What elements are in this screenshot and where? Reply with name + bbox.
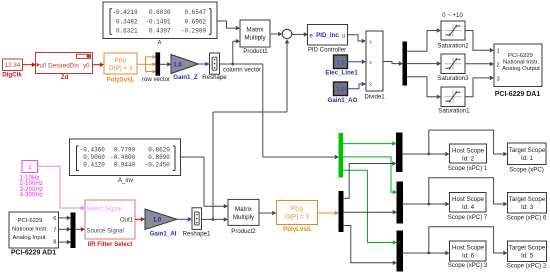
block Reshape1	[183, 208, 211, 238]
svg-text:Analog Input: Analog Input	[12, 235, 45, 241]
svg-text:Target Scope: Target Scope	[509, 147, 546, 154]
wire DigClk to Zd	[23, 62, 37, 67]
wire Reshape output (column vector) with branch up to Product1 and down to green demux	[220, 39, 340, 159]
svg-text:Scope (xPC): Scope (xPC)	[509, 167, 544, 174]
block Reshape	[202, 53, 227, 81]
block Saturation2	[437, 21, 469, 50]
svg-text:Host Scope: Host Scope	[452, 148, 485, 155]
svg-text:O(P) = 3: O(P) = 3	[109, 65, 133, 72]
scope mux 3 (black bar)	[397, 231, 403, 271]
block Target Scope Id 1	[508, 143, 547, 174]
svg-text:Gain1_AI: Gain1_AI	[150, 230, 177, 237]
wire Product1 to sum	[270, 32, 282, 37]
block PolySvsL polynomial P(u)	[104, 53, 137, 83]
svg-text:Multiply: Multiply	[233, 214, 255, 221]
svg-text:Host Scope: Host Scope	[452, 196, 485, 203]
svg-text:PID Controller: PID Controller	[308, 46, 346, 53]
svg-text:0.6962: 0.6962	[184, 18, 206, 25]
wire PolyLvsS to lower demux (orange)	[318, 211, 340, 216]
svg-text:IIR Filter Select: IIR Filter Select	[88, 241, 133, 248]
block Host Scope Id 4	[448, 193, 488, 221]
svg-text:x: x	[369, 39, 372, 45]
svg-text:0.6547: 0.6547	[184, 9, 206, 16]
wire Saturation3 to DA1 port 2	[465, 62, 494, 67]
wire green demux out1 to scope mux 1	[343, 141, 397, 146]
constant 4 (IIR filter select value)	[22, 161, 38, 173]
svg-text:Id: 3: Id: 3	[521, 204, 534, 211]
svg-text:Id: 2: Id: 2	[462, 155, 475, 162]
block PCI-6229 DA1 analog output	[494, 44, 542, 98]
wire mux to Gain1_Z	[160, 62, 172, 67]
demux green (desired signals)	[339, 134, 343, 178]
svg-text:Saturation2: Saturation2	[437, 43, 469, 50]
svg-text:Host Scope: Host Scope	[452, 245, 485, 252]
svg-text:1.0: 1.0	[153, 218, 162, 224]
constant matrix A display block	[103, 2, 217, 46]
svg-text:Id: 5: Id: 5	[521, 253, 534, 260]
source block DigClk (digital clock 12:34)	[2, 59, 22, 79]
mux row vector (black bar)	[142, 53, 170, 83]
wire Divide1 to demux	[383, 61, 403, 66]
svg-text:12:34: 12:34	[5, 62, 21, 69]
svg-text:PolySvsL: PolySvsL	[107, 76, 135, 83]
svg-text:y0: y0	[83, 62, 90, 69]
svg-text:Scope (xPC) 6: Scope (xPC) 6	[507, 214, 547, 221]
svg-text:-0.4360: -0.4360	[80, 147, 106, 154]
block Target Scope Id 5	[507, 241, 547, 270]
wire mux to IIR Filter Select source input	[75, 227, 85, 232]
svg-text:Scope (xPC) 7: Scope (xPC) 7	[448, 214, 488, 221]
svg-text:1.0: 1.0	[336, 59, 345, 66]
gain Gain1_Z (triangle 1.0)	[171, 55, 199, 81]
svg-text:0.6030: 0.6030	[149, 9, 171, 16]
svg-text:0.4397: 0.4397	[149, 28, 171, 35]
svg-text:x: x	[369, 60, 372, 66]
wire scope mux 1 to Host Scope 2 and Target Scope 1	[402, 130, 508, 156]
svg-text:Id: 4: Id: 4	[462, 204, 475, 211]
svg-text:4-300Hz: 4-300Hz	[20, 192, 43, 199]
svg-text:column vector: column vector	[223, 67, 261, 74]
svg-text:DesiredDis: DesiredDis	[48, 62, 79, 69]
svg-text:0.6321: 0.6321	[116, 28, 138, 35]
wire PID to Divide1 input 1	[348, 35, 367, 44]
svg-text:Id: 6: Id: 6	[462, 253, 475, 260]
svg-text:National Instr.: National Instr.	[503, 59, 539, 65]
svg-text:DigClk: DigClk	[2, 72, 22, 79]
scope mux 1 (black bar)	[397, 133, 403, 172]
wire Gain1_AO to Divide1 input 3	[348, 82, 367, 89]
svg-text:Id: 1: Id: 1	[521, 155, 534, 162]
wire Saturation1 to DA1 port 3	[465, 76, 494, 97]
svg-text:Saturation3: Saturation3	[437, 75, 469, 82]
block Product1 (Matrix Multiply)	[240, 20, 270, 55]
svg-text:Scope (xPC) 2: Scope (xPC) 2	[507, 263, 547, 270]
svg-text:0.9060: 0.9060	[83, 154, 105, 161]
wire scope mux 3 to Host Scope 6 and Target Scope 5	[402, 227, 508, 256]
block Target Scope Id 3	[507, 193, 547, 222]
svg-text:1.0: 1.0	[336, 86, 345, 93]
wire constant 4 to IIR Filter Select (pink)	[38, 166, 86, 210]
wire IIR out to Gain1_AI	[135, 217, 145, 222]
wire lower demux out1 to scope mux 1	[343, 161, 397, 198]
svg-text:PCI-6229: PCI-6229	[18, 218, 43, 224]
svg-text:row vector: row vector	[142, 76, 170, 83]
annotation filter frequency list	[20, 175, 43, 199]
wire demux to Saturation1	[407, 77, 442, 99]
wire A_inv to Product2 input 1	[181, 157, 229, 209]
svg-text:A_inv: A_inv	[118, 177, 134, 184]
wire Saturation2 to DA1 port 1	[465, 31, 494, 53]
svg-text:Reshape: Reshape	[202, 74, 227, 81]
svg-text:1.0: 1.0	[173, 63, 182, 69]
scope mux 2 (black bar)	[397, 182, 403, 223]
wire Product2 to PolyLvsS	[259, 211, 276, 216]
demux after Divide1 (black bar)	[403, 42, 407, 85]
svg-text:Reshape1: Reshape1	[183, 230, 211, 237]
svg-text:0.9440: 0.9440	[114, 162, 136, 169]
svg-text:7: 7	[53, 227, 56, 233]
wire Elec_Line1 to Divide1 input 2	[348, 60, 367, 65]
svg-text:Multiply: Multiply	[244, 35, 266, 42]
svg-text:-0.4218: -0.4218	[112, 9, 138, 16]
svg-text:P(u): P(u)	[115, 57, 127, 64]
wire Zd to PolySvsL	[93, 62, 105, 67]
wire demux to Saturation2	[407, 28, 442, 51]
svg-text:-0.1491: -0.1491	[145, 18, 171, 25]
block Divide1	[364, 31, 385, 100]
svg-text:Zd: Zd	[61, 74, 69, 81]
svg-text:Scope (xPC) 1: Scope (xPC) 1	[448, 165, 488, 172]
wire sum to PID controller	[292, 32, 308, 37]
svg-text:0.8620: 0.8620	[148, 147, 170, 154]
svg-text:Target Scope: Target Scope	[509, 245, 546, 252]
svg-text:Product1: Product1	[243, 48, 268, 55]
gain Gain1_AI (triangle 1.0)	[145, 209, 177, 237]
block PolyLvsS polynomial P(u)	[277, 201, 318, 233]
feedback wire from Reshape1 branch up into sum	[213, 39, 289, 219]
svg-text:PID_Inc: PID_Inc	[316, 32, 339, 39]
wires AD1 ports 6 7 8 to mux	[59, 216, 72, 245]
block Host Scope Id 2	[448, 144, 488, 172]
mux AD1 signals (black bar)	[71, 213, 75, 248]
svg-text:PCI-6229 DA1: PCI-6229 DA1	[495, 91, 541, 98]
block PID Controller (PID_Inc)	[308, 25, 348, 54]
svg-text:3: 3	[497, 76, 500, 82]
svg-text:1: 1	[497, 49, 500, 55]
wire scope mux 2 to Host Scope 4 and Target Scope 3	[402, 178, 508, 207]
svg-text:PCI-6229: PCI-6229	[508, 53, 533, 59]
constant Elec_Line1 (1.0)	[325, 55, 358, 76]
svg-text:u: u	[342, 33, 345, 39]
svg-text:O(P) = 3: O(P) = 3	[285, 214, 309, 221]
svg-text:0 ~ +10: 0 ~ +10	[442, 12, 463, 19]
sum junction circle	[282, 29, 292, 39]
svg-text:Saturation1: Saturation1	[438, 108, 470, 115]
svg-text:Scope (xPC) 3: Scope (xPC) 3	[448, 262, 488, 269]
svg-text:4: 4	[28, 164, 32, 171]
svg-text:Gain1_AO: Gain1_AO	[328, 97, 358, 104]
svg-text:Divide1: Divide1	[364, 93, 385, 100]
constant Gain1_AO (1.0)	[328, 82, 358, 104]
svg-text:u0: u0	[40, 62, 47, 69]
svg-text:0.8690: 0.8690	[148, 154, 170, 161]
svg-text:6: 6	[53, 216, 56, 222]
wire Reshape1 to Product2 input 2 with branch to feedback	[202, 217, 229, 222]
demux measured signals (black bar)	[339, 192, 343, 232]
svg-text:Matrix: Matrix	[246, 27, 264, 34]
block Host Scope Id 6	[448, 241, 488, 269]
block Saturation1	[438, 87, 470, 115]
svg-text:0.7790: 0.7790	[114, 147, 136, 154]
block Saturation3	[437, 54, 469, 82]
svg-text:Product2: Product2	[231, 228, 256, 235]
block Product2 (Matrix Multiply)	[228, 199, 259, 235]
svg-text:Matrix: Matrix	[235, 206, 253, 213]
wire matrix A to Product1	[217, 21, 240, 30]
svg-text:8: 8	[53, 240, 56, 246]
svg-text:2: 2	[497, 62, 500, 68]
svg-text:P(u): P(u)	[291, 205, 303, 212]
subsystem IIR Filter Select	[85, 200, 135, 248]
wire lower demux out2 to scope mux 2	[343, 210, 397, 215]
wire demux to Saturation3	[407, 61, 442, 66]
svg-text:Analog Output: Analog Output	[502, 66, 540, 72]
svg-text:-0.2980: -0.2980	[181, 28, 207, 35]
constant matrix A_inv display block	[70, 139, 181, 184]
svg-text:Select Signal: Select Signal	[87, 206, 122, 212]
svg-text:National Instr.: National Instr.	[12, 227, 48, 233]
wire Gain1_AI to Reshape1	[177, 217, 192, 222]
svg-text:Gain1_Z: Gain1_Z	[173, 74, 198, 81]
wire green demux out2 to scope mux 2	[343, 157, 397, 195]
subsystem Zd (DesiredDis)	[36, 53, 93, 82]
svg-text:PCI-6229 AD1: PCI-6229 AD1	[11, 250, 56, 257]
wire Gain1_Z to Reshape	[199, 62, 210, 67]
svg-text:Source Signal: Source Signal	[87, 229, 124, 235]
svg-text:0.3482: 0.3482	[116, 18, 138, 25]
wire green demux out3 to scope mux 3	[343, 170, 397, 245]
svg-text:Elec_Line1: Elec_Line1	[325, 69, 358, 76]
wire lower demux out3 to scope mux 3	[343, 226, 397, 266]
svg-text:x: x	[369, 82, 372, 88]
block PCI-6229 AD1 analog input	[9, 212, 59, 257]
svg-text:-0.2450: -0.2450	[145, 162, 171, 169]
svg-text:0.4120: 0.4120	[83, 162, 105, 169]
wire PolySvsL fan-out to row vector mux (3 branches)	[137, 55, 156, 74]
svg-text:Out1: Out1	[120, 218, 134, 224]
svg-text:PolyLvsS: PolyLvsS	[283, 226, 311, 233]
svg-text:Target Scope: Target Scope	[509, 196, 546, 203]
svg-text:-0.4800: -0.4800	[110, 154, 136, 161]
